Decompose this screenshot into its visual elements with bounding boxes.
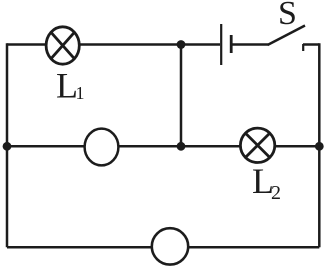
lamp L1 cross [51, 32, 74, 58]
wire top-left to battery [7, 43, 220, 46]
svg-text:S: S [278, 0, 297, 32]
switch S blade [268, 26, 306, 46]
wire right side [318, 43, 321, 247]
meter circle bottom [152, 228, 188, 264]
wire bottom [7, 246, 319, 249]
lamp L2 cross [245, 133, 269, 157]
wire left side [6, 43, 9, 247]
junction dot node B top [177, 40, 186, 49]
battery short plate (-) [230, 35, 233, 53]
wire middle horizontal [7, 145, 319, 148]
lamp L2 circle [240, 128, 274, 162]
lamp L1 circle [46, 27, 79, 64]
switch fixed contact tick [302, 44, 304, 51]
svg-text:2: 2 [271, 182, 281, 204]
battery long plate (+) [220, 24, 222, 65]
wire vertical link node B to middle [180, 45, 183, 147]
junction dot center middle [177, 142, 186, 151]
junction dot left middle [3, 142, 12, 151]
wire switch contact to top-right corner [303, 43, 319, 46]
junction dot right middle [315, 142, 324, 151]
svg-text:1: 1 [76, 83, 85, 103]
wire battery to switch pivot [232, 43, 268, 46]
meter circle middle (ammeter) [85, 129, 119, 166]
